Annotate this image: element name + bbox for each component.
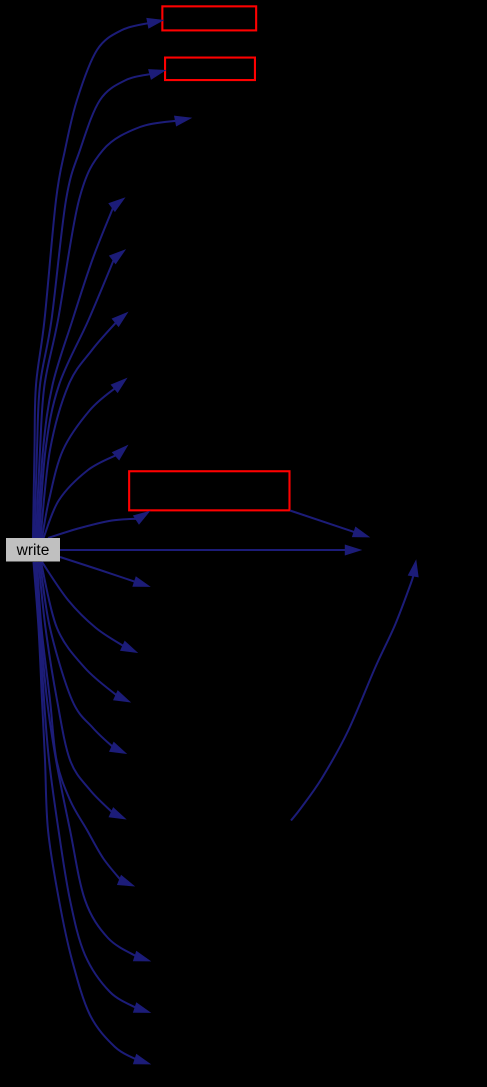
node write (current, gray) (6, 538, 60, 562)
node box (red) middle (129, 471, 289, 510)
edge write->n8 (44, 446, 128, 539)
edge write->n3 (36, 116, 191, 538)
edge write->n4 (38, 198, 125, 538)
edge write->right node (horizontal) (60, 545, 361, 555)
edge write->m3 (41, 562, 130, 702)
edge write->n6 (41, 313, 128, 539)
svg-text:write: write (16, 542, 50, 559)
edge write->m2 (42, 562, 137, 653)
edge write->m7 (36, 562, 151, 961)
node box (red) top 2 (165, 58, 255, 81)
edge write->m9 (34, 562, 151, 1064)
edge bottom node->up right node (291, 561, 418, 821)
edge write->n5 (39, 250, 125, 538)
edge write->box1 (33, 18, 163, 538)
node box (red) top 1 (162, 6, 256, 30)
edge write->m5 (39, 562, 126, 819)
edge write->n7 (42, 379, 127, 539)
edge write->m1 (60, 557, 150, 587)
edge write->m4 (40, 562, 126, 754)
edge write->m8 (35, 562, 151, 1013)
edge write->m6 (37, 562, 134, 886)
edge write->box3 (48, 511, 150, 538)
edge write->box2 (35, 70, 166, 538)
edge box3->right node (290, 511, 369, 538)
